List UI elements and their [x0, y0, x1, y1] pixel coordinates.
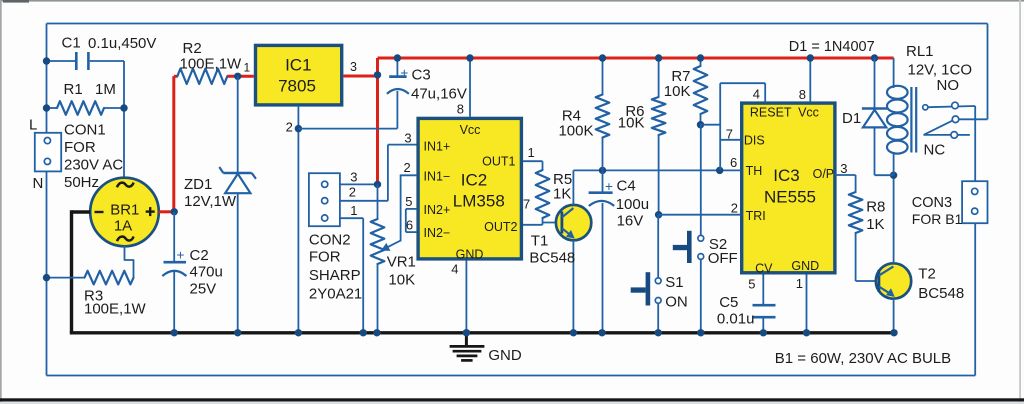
svg-text:OFF: OFF — [708, 250, 738, 267]
svg-text:230V AC: 230V AC — [64, 157, 123, 174]
svg-text:O/P: O/P — [813, 167, 835, 181]
svg-text:3: 3 — [404, 131, 411, 146]
svg-text:C2: C2 — [190, 247, 209, 264]
svg-text:47u,16V: 47u,16V — [411, 86, 467, 103]
svg-text:C4: C4 — [617, 178, 636, 195]
svg-text:1M: 1M — [95, 81, 116, 98]
svg-text:+: + — [400, 65, 408, 80]
svg-text:IC3: IC3 — [773, 166, 799, 185]
svg-text:RESET: RESET — [750, 106, 792, 120]
svg-text:T1: T1 — [531, 233, 549, 250]
svg-text:ZD1: ZD1 — [184, 176, 212, 193]
svg-text:IN1−: IN1− — [424, 170, 451, 184]
svg-text:7: 7 — [523, 197, 530, 212]
svg-text:R8: R8 — [866, 199, 885, 216]
svg-text:CON1: CON1 — [64, 122, 106, 139]
svg-text:7805: 7805 — [278, 77, 316, 96]
svg-text:6: 6 — [730, 155, 737, 170]
svg-text:12V, 1CO: 12V, 1CO — [908, 62, 973, 79]
svg-text:GND: GND — [456, 248, 484, 262]
svg-text:IN2+: IN2+ — [424, 203, 451, 217]
svg-text:8: 8 — [799, 87, 806, 102]
svg-text:IN1+: IN1+ — [424, 140, 451, 154]
svg-text:GND: GND — [791, 259, 819, 273]
svg-text:OUT1: OUT1 — [482, 155, 515, 169]
svg-text:10K: 10K — [664, 83, 691, 100]
svg-text:NO: NO — [937, 77, 960, 94]
svg-text:0.01u: 0.01u — [717, 311, 755, 328]
svg-text:Vcc: Vcc — [460, 123, 481, 137]
svg-text:1: 1 — [244, 60, 251, 74]
svg-text:2: 2 — [286, 120, 293, 135]
svg-text:IC1: IC1 — [285, 56, 311, 75]
svg-text:1: 1 — [796, 276, 803, 291]
svg-text:100u: 100u — [616, 196, 649, 213]
svg-text:1K: 1K — [553, 186, 571, 203]
svg-text:+: + — [605, 179, 613, 194]
svg-text:BR1: BR1 — [110, 201, 139, 218]
svg-text:LM358: LM358 — [453, 191, 505, 210]
svg-text:2Y0A21: 2Y0A21 — [309, 286, 362, 303]
svg-text:N: N — [33, 175, 44, 192]
svg-text:10K: 10K — [388, 272, 415, 289]
svg-text:TH: TH — [746, 164, 763, 178]
svg-text:C3: C3 — [412, 67, 431, 84]
svg-text:FOR: FOR — [309, 249, 341, 266]
svg-text:Vcc: Vcc — [798, 106, 819, 120]
svg-text:GND: GND — [488, 347, 522, 364]
svg-text:TRI: TRI — [746, 209, 766, 223]
svg-text:VR1: VR1 — [387, 254, 416, 271]
svg-text:ON: ON — [665, 294, 688, 311]
svg-text:OUT2: OUT2 — [484, 220, 517, 234]
svg-text:3: 3 — [840, 161, 847, 176]
svg-text:470u: 470u — [190, 264, 223, 281]
svg-text:L: L — [29, 117, 37, 134]
svg-text:DIS: DIS — [744, 134, 765, 148]
svg-text:100K: 100K — [558, 123, 593, 140]
svg-text:D1 = 1N4007: D1 = 1N4007 — [789, 39, 875, 55]
svg-text:T2: T2 — [918, 266, 936, 283]
svg-text:CON3: CON3 — [912, 195, 952, 211]
svg-text:1: 1 — [350, 203, 357, 218]
svg-text:4: 4 — [451, 262, 458, 277]
svg-text:SHARP: SHARP — [309, 267, 361, 284]
svg-text:25V: 25V — [190, 281, 217, 298]
svg-text:100E,1W: 100E,1W — [180, 56, 243, 73]
svg-text:R2: R2 — [183, 40, 202, 57]
svg-text:D1: D1 — [842, 110, 861, 127]
svg-text:7: 7 — [726, 127, 733, 142]
svg-text:8: 8 — [457, 102, 464, 117]
svg-text:R1: R1 — [64, 81, 83, 98]
svg-text:10K: 10K — [618, 115, 645, 132]
svg-text:16V: 16V — [617, 213, 644, 230]
svg-text:BC548: BC548 — [529, 250, 575, 267]
svg-text:2: 2 — [731, 201, 738, 216]
svg-text:0.1u,450V: 0.1u,450V — [88, 35, 156, 52]
svg-text:3: 3 — [350, 170, 357, 185]
svg-text:NC: NC — [924, 142, 946, 159]
svg-text:5: 5 — [405, 194, 412, 209]
svg-text:1: 1 — [528, 145, 535, 160]
svg-text:RL1: RL1 — [906, 43, 934, 60]
svg-text:IN2−: IN2− — [424, 226, 451, 240]
svg-text:C1: C1 — [62, 35, 81, 52]
svg-text:FOR: FOR — [64, 139, 96, 156]
svg-text:CV: CV — [755, 262, 773, 276]
svg-text:2: 2 — [349, 185, 356, 200]
svg-text:BC548: BC548 — [918, 285, 964, 302]
svg-text:4: 4 — [753, 87, 760, 102]
svg-text:FOR B1: FOR B1 — [912, 211, 963, 227]
svg-text:100E,1W: 100E,1W — [84, 301, 147, 318]
svg-text:1A: 1A — [114, 218, 132, 235]
svg-text:C5: C5 — [719, 294, 738, 311]
svg-text:B1 = 60W, 230V AC BULB: B1 = 60W, 230V AC BULB — [775, 350, 951, 367]
svg-text:1K: 1K — [866, 216, 884, 233]
svg-text:S1: S1 — [665, 274, 683, 291]
svg-text:IC2: IC2 — [461, 171, 487, 190]
svg-text:6: 6 — [406, 218, 413, 233]
svg-text:3: 3 — [350, 60, 357, 74]
svg-text:12V,1W: 12V,1W — [184, 193, 237, 210]
svg-text:+: + — [177, 247, 185, 262]
svg-text:NE555: NE555 — [764, 188, 816, 207]
svg-text:5: 5 — [748, 277, 755, 292]
svg-text:50Hz: 50Hz — [64, 174, 99, 191]
svg-text:CON2: CON2 — [309, 232, 351, 249]
svg-text:2: 2 — [403, 160, 410, 175]
